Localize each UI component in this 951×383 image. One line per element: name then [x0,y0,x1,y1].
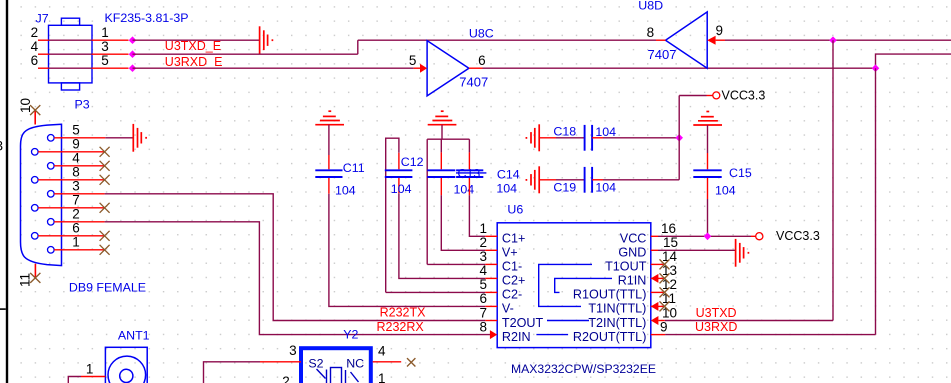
svg-text:1: 1 [101,25,109,40]
svg-text:VCC3.3: VCC3.3 [776,229,820,243]
svg-text:U3TXD: U3TXD [696,306,737,320]
capacitor C14 [456,152,520,195]
svg-text:9: 9 [660,319,668,334]
U6 pin11 stub arrow [651,305,665,307]
wire U3TXD vertical [832,40,834,320]
svg-text:1: 1 [479,221,487,236]
svg-text:DB9 FEMALE: DB9 FEMALE [69,281,146,295]
wire step vertical [357,40,359,54]
svg-text:6: 6 [31,53,39,68]
wire C12 bottom to U6 C2+ [399,193,485,278]
svg-text:GND: GND [618,246,646,260]
wire J7 pin1 to earth [133,39,260,41]
svg-text:4: 4 [378,344,386,359]
svg-text:3: 3 [479,249,487,264]
S2 pin4 no-connect [373,344,416,367]
svg-text:C12: C12 [401,155,424,169]
wire right edge y54 [876,54,951,68]
svg-text:2: 2 [282,374,290,383]
wire J7 pin5 to U8C input [133,67,414,69]
svg-text:5: 5 [409,53,417,68]
U8D output pin [656,39,666,41]
svg-text:104: 104 [595,125,616,139]
S2 pin3 wire [204,343,302,383]
junction U3TXD column [829,36,837,44]
svg-text:T2IN(TTL): T2IN(TTL) [588,316,646,330]
svg-text:V-: V- [502,302,514,316]
power port VCC3.3 right [751,229,820,243]
U6 right pin numbers [660,221,678,334]
wire J7 pin3 to step [133,53,358,55]
junction U3RXD column [872,64,880,72]
capacitor C18 [539,125,616,151]
svg-text:8: 8 [479,319,487,334]
wire P3 pin3 to U6 T2OUT [105,194,486,321]
svg-text:7: 7 [72,193,80,208]
U6 pin12 stub [651,291,665,293]
svg-text:C2+: C2+ [502,274,525,288]
svg-text:R2OUT(TTL): R2OUT(TTL) [573,330,646,344]
junction C18/VCC [675,134,683,142]
svg-text:C1-: C1- [502,260,522,274]
svg-text:MAX3232CPW/SP3232EE: MAX3232CPW/SP3232EE [511,362,656,376]
crystal symbol inside S2 [317,368,359,383]
buffer U8C [409,26,494,96]
svg-text:16: 16 [661,221,676,236]
U8D input pin arrow [707,36,715,45]
no-connect X pin14 [660,259,670,269]
svg-text:8: 8 [647,25,655,40]
svg-text:4: 4 [72,151,80,166]
svg-text:VCC: VCC [620,232,647,246]
wire U3RXD vertical [875,68,877,334]
svg-text:2: 2 [72,207,80,222]
wire C11 to U6 V- [329,194,485,307]
P3 pin numbers [72,123,80,250]
svg-text:6: 6 [479,291,487,306]
svg-text:C2-: C2- [502,288,522,302]
svg-text:14: 14 [662,249,678,264]
U6 internal link R2 [536,334,568,336]
U6 pin13 stub arrow [651,277,665,279]
earth ground above C11 [315,111,344,125]
U6 internal loopback R1 [555,278,612,292]
U6 pin9 wire U3RXD [651,334,665,336]
earth ground J7 row [260,26,273,54]
svg-text:3: 3 [0,139,3,154]
U6 internal loopback T1 [539,264,592,306]
P3 pin lines [38,138,105,250]
capacitor C13 [427,152,486,196]
U6 left pin names [502,232,544,344]
no-connect X pin12 [660,287,670,297]
U6 pin8 R2IN arrow [490,330,497,339]
svg-text:6: 6 [72,221,80,236]
junction J7 pin1 [129,36,137,44]
svg-text:VCC3.3: VCC3.3 [722,89,766,103]
svg-text:5: 5 [479,277,487,292]
svg-text:Y2: Y2 [343,328,358,342]
no-connect X pin11 [660,301,670,311]
svg-text:U8D: U8D [638,0,663,12]
svg-text:KF235-3.81-3P: KF235-3.81-3P [105,11,189,25]
wire ground bar over C13/C14 [427,125,469,265]
wire C14 bottom to U6 C1+ [469,195,485,236]
svg-text:10: 10 [18,98,33,113]
svg-text:C15: C15 [729,166,752,180]
U6 pin16 VCC wire [651,235,658,237]
U8C output pin [469,67,483,69]
svg-text:6: 6 [478,53,486,68]
U6 right pin names [573,232,647,344]
svg-text:R2IN: R2IN [502,330,531,344]
capacitor C19 [539,167,616,194]
svg-text:8: 8 [72,165,80,180]
U6 internal link T2 [547,320,589,322]
no-connect X P3 pin9 [100,147,110,255]
svg-text:11: 11 [18,273,33,287]
svg-text:1: 1 [72,235,80,250]
wire to U8D output [358,39,656,41]
wire U8C out to junction [483,67,876,69]
antenna ANT1 [105,328,149,383]
U8C input pin arrow [414,67,421,69]
buffer U8D [638,0,723,68]
svg-text:7407: 7407 [459,74,488,89]
svg-text:U3RXD_E: U3RXD_E [165,55,223,69]
svg-text:1: 1 [378,371,386,383]
IC U6 MAX3232 [497,203,656,377]
svg-text:R1IN: R1IN [618,274,647,288]
svg-text:7407: 7407 [648,47,677,62]
U6 left pin numbers [479,221,487,334]
svg-text:V+: V+ [502,246,518,260]
U6 pin10 arrow wire U3TXD [651,316,659,325]
P3 pin circles [32,135,55,254]
svg-text:T2OUT: T2OUT [502,316,544,330]
U6 left pin stubs [485,236,497,320]
svg-text:R232TX: R232TX [380,306,427,320]
junction J7 pin5 [129,64,137,72]
svg-text:R1OUT(TTL): R1OUT(TTL) [573,288,646,302]
wire C18 to VCC column [603,137,679,139]
svg-text:S2: S2 [308,357,323,371]
svg-text:15: 15 [663,235,678,250]
svg-text:2: 2 [31,25,39,40]
svg-text:C11: C11 [343,161,365,175]
wire C19 right corner [603,179,679,181]
connector P3 DB9 [21,98,147,295]
svg-text:1: 1 [86,362,94,377]
svg-text:104: 104 [335,183,356,197]
crystal block S2/Y2 [301,328,371,383]
capacitor C15 [693,125,752,199]
earth ground C18 [526,124,539,151]
svg-text:T1OUT: T1OUT [605,260,647,274]
svg-text:104: 104 [391,182,412,196]
earth ground U6 GND [736,239,749,267]
svg-text:5: 5 [72,123,80,138]
svg-text:U3TXD_E: U3TXD_E [165,39,221,53]
svg-text:104: 104 [595,180,616,194]
svg-text:T1IN(TTL): T1IN(TTL) [588,302,646,316]
svg-text:ANT1: ANT1 [118,328,150,342]
svg-text:J7: J7 [36,12,49,26]
junction C15/pin16 [704,233,712,241]
svg-text:C18: C18 [553,125,576,139]
power port VCC3.3 top [679,89,765,103]
svg-text:9: 9 [72,137,80,152]
svg-text:104: 104 [715,184,736,198]
svg-text:3: 3 [72,179,80,194]
P3 pin11 no-connect [18,264,41,287]
U6 pin15 GND wire [651,249,658,251]
svg-text:U3RXD: U3RXD [695,320,737,334]
svg-text:4: 4 [479,263,487,278]
svg-text:9: 9 [716,23,724,38]
no-connect X pin13 [660,273,670,283]
svg-text:C14: C14 [497,167,520,181]
svg-text:7: 7 [479,305,487,320]
sheet edge line left [0,0,8,383]
earth ground above C15 [693,112,722,126]
U6 pin14 stub [651,263,665,265]
svg-text:U6: U6 [507,203,523,217]
svg-text:5: 5 [101,53,109,68]
wire P3 pin2 to U6 R2IN [105,222,490,335]
junction J7 pin3 [129,50,137,58]
svg-text:C1+: C1+ [502,232,525,246]
svg-text:104: 104 [496,181,517,195]
svg-text:3: 3 [289,343,297,358]
wire C13 ground leg to U6 C1- [427,263,485,265]
wire P3 pin5 to earth [105,137,133,139]
svg-text:C19: C19 [553,180,576,194]
capacitor C11 [315,125,364,198]
connector J7 [31,11,189,90]
capacitor C12 [385,138,424,292]
earth ground C19 [526,166,539,193]
svg-text:P3: P3 [75,98,90,112]
wire U8D input to right edge [725,39,951,41]
svg-text:4: 4 [31,39,39,54]
wire C12 top to U6 C2- [386,291,486,293]
ANT1 pin1 wire [68,362,105,383]
svg-text:U8C: U8C [469,26,494,40]
P3 pin10 no-connect [18,98,40,125]
wire C13 bottom to U6 V+ [441,195,485,250]
svg-text:3: 3 [101,39,109,54]
svg-text:2: 2 [479,235,487,250]
earth ground P3 pin5 [133,124,146,152]
svg-text:R232RX: R232RX [377,320,425,334]
svg-text:NC: NC [346,357,364,371]
wire C15 to VCC pin16 [707,199,709,236]
earth ground above C13 [428,111,457,125]
svg-text:104: 104 [454,182,475,196]
